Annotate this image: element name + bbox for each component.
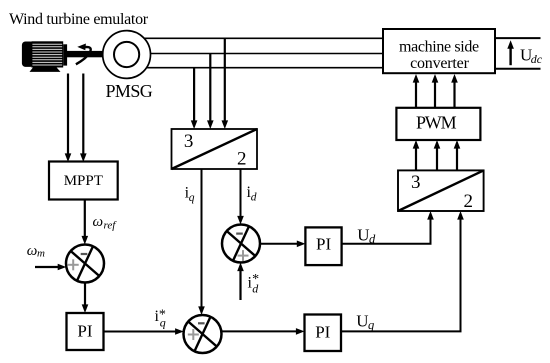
- wire S3 to PI3: [221, 328, 304, 335]
- wire DC bus plus: [495, 37, 541, 39]
- arrow Udc: [507, 40, 514, 65]
- summing junction S2 (id): [222, 225, 260, 263]
- svg-text:PI: PI: [315, 323, 330, 342]
- block machine side converter: [383, 29, 495, 73]
- wire PWM to converter 3: [451, 74, 458, 108]
- svg-text:d: d: [251, 192, 257, 204]
- svg-text:ω: ω: [93, 214, 104, 230]
- svg-text:MPPT: MPPT: [64, 173, 103, 189]
- block PI2: [305, 227, 341, 265]
- rotation arrow on shaft: [76, 44, 91, 65]
- wire S1 to PI1: [82, 282, 89, 313]
- svg-text:PI: PI: [77, 322, 92, 341]
- svg-text:U: U: [357, 226, 369, 245]
- wire id from T1 to S2: [237, 169, 244, 225]
- block T2 dq to abc transform: [398, 170, 484, 212]
- svg-text:dc: dc: [531, 52, 543, 66]
- svg-text:PWM: PWM: [416, 113, 457, 133]
- svg-text:PMSG: PMSG: [106, 81, 153, 101]
- wire MPPT to summing junction S1: [82, 200, 89, 245]
- wire motor to MPPT input 1: [65, 74, 72, 163]
- block T1 abc to dq transform: [172, 129, 258, 169]
- svg-text:3: 3: [411, 172, 421, 193]
- svg-text:Wind turbine emulator: Wind turbine emulator: [9, 11, 149, 28]
- wire DC bus minus: [495, 68, 541, 70]
- block PI1: [67, 313, 104, 350]
- svg-text:ref: ref: [104, 220, 118, 232]
- svg-text:converter: converter: [410, 55, 469, 72]
- wire tap phase B to transform T1: [207, 54, 214, 130]
- svg-text:q: q: [189, 192, 195, 204]
- svg-text:2: 2: [237, 148, 247, 169]
- svg-text:m: m: [37, 248, 45, 260]
- svg-text:d: d: [252, 282, 259, 296]
- wire id* into S2: [237, 263, 244, 301]
- wire Ud from PI2 to T2: [342, 211, 434, 244]
- wire phase C: [127, 67, 384, 69]
- wire PWM to converter 2: [432, 74, 439, 108]
- wire S2 to PI2: [260, 241, 306, 248]
- motor M1 shaft: [64, 51, 104, 57]
- wire tap phase A to transform T1: [222, 38, 229, 129]
- svg-text:2: 2: [464, 191, 474, 212]
- svg-text:3: 3: [184, 131, 194, 152]
- wire phase B: [127, 53, 384, 55]
- svg-text:U: U: [356, 312, 368, 331]
- wire T2 to PWM 2: [434, 140, 441, 170]
- wire PWM to converter 1: [413, 74, 420, 108]
- summing junction S3 (iq): [184, 315, 222, 353]
- block MPPT: [49, 162, 118, 200]
- svg-text:PI: PI: [316, 235, 331, 254]
- wire phase A: [127, 37, 384, 39]
- wire T2 to PWM 3: [454, 140, 461, 170]
- svg-text:q: q: [368, 318, 374, 332]
- wire omega_m to S1: [35, 264, 66, 271]
- svg-text:machine side: machine side: [399, 39, 479, 56]
- svg-text:q: q: [160, 316, 166, 330]
- wire T2 to PWM 1: [413, 140, 420, 170]
- summing junction S1: [66, 245, 104, 283]
- wire tap phase C to transform T1: [191, 68, 198, 129]
- wire Uq from PI3 to T2: [341, 211, 464, 331]
- motor M1: [22, 41, 67, 72]
- generator G1 PMSG: [103, 31, 151, 79]
- wire motor to MPPT input 2: [80, 74, 87, 163]
- svg-text:ω: ω: [27, 243, 38, 259]
- wire PI1 to summing junction S3: [104, 328, 184, 335]
- block PI3: [305, 315, 342, 352]
- wire iq from T1 to S3: [198, 169, 205, 315]
- block PWM: [396, 108, 480, 140]
